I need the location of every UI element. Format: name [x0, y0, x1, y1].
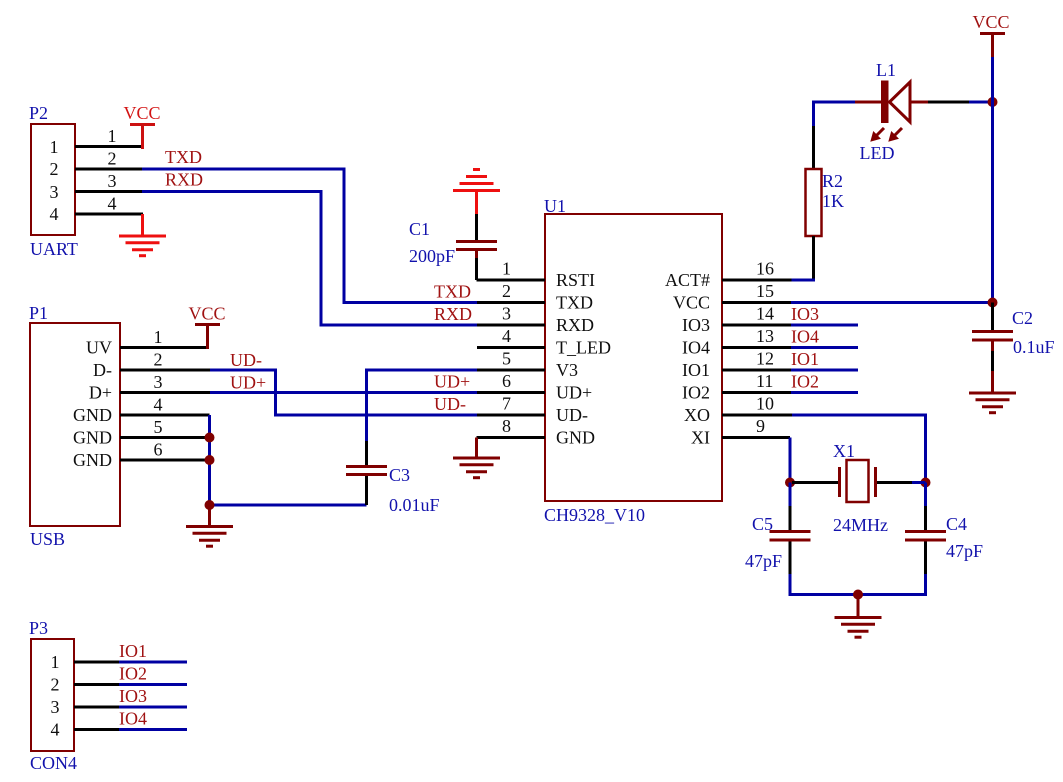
- svg-text:TXD: TXD: [165, 147, 202, 167]
- svg-text:16: 16: [756, 259, 774, 279]
- svg-text:47pF: 47pF: [946, 541, 983, 561]
- svg-text:CH9328_V10: CH9328_V10: [544, 505, 645, 525]
- svg-text:LED: LED: [860, 143, 895, 163]
- svg-text:XO: XO: [684, 405, 710, 425]
- svg-text:IO4: IO4: [791, 327, 819, 347]
- svg-text:TXD: TXD: [434, 282, 471, 302]
- svg-text:3: 3: [108, 171, 117, 191]
- wire net IO3: [791, 304, 858, 325]
- junction at P1 pin5: [205, 433, 215, 443]
- svg-text:VCC: VCC: [123, 103, 160, 123]
- svg-text:1: 1: [154, 327, 163, 347]
- U1 pin 9 XI stub: [722, 416, 790, 438]
- svg-text:R2: R2: [822, 171, 843, 191]
- svg-text:6: 6: [154, 440, 163, 460]
- U1 pin 6 UD+ stub: [477, 371, 545, 393]
- svg-text:RSTI: RSTI: [556, 270, 595, 290]
- svg-text:VCC: VCC: [972, 12, 1009, 32]
- connector P3: [29, 618, 77, 773]
- svg-text:0.1uF: 0.1uF: [1013, 337, 1055, 357]
- diode L1 LED: [855, 60, 929, 163]
- svg-text:14: 14: [756, 304, 774, 324]
- svg-text:L1: L1: [876, 60, 896, 80]
- svg-text:7: 7: [502, 394, 511, 414]
- svg-text:VCC: VCC: [673, 293, 710, 313]
- wire P1 ground bus vertical: [210, 415, 367, 505]
- wire net IO1 at P3: [119, 641, 187, 662]
- U1 pin 11 IO2 stub: [722, 371, 791, 393]
- U1 pin 8 GND stub: [477, 416, 546, 438]
- P2 pin 3 wire: [75, 171, 142, 192]
- P2 pin 1 wire: [75, 126, 143, 147]
- P3 pin 3 stub: [74, 706, 119, 709]
- svg-text:3: 3: [50, 182, 59, 202]
- svg-text:UD+: UD+: [556, 383, 592, 403]
- wire crystal bottom rail: [790, 574, 926, 595]
- svg-text:C1: C1: [409, 219, 430, 239]
- wire net RXD from P2 to U1: [142, 192, 477, 326]
- junction at XO / crystal right: [921, 478, 931, 488]
- U1 pin 12 IO1 stub: [722, 349, 791, 371]
- svg-text:24MHz: 24MHz: [833, 515, 888, 535]
- svg-text:4: 4: [154, 395, 163, 415]
- connector P2: [29, 103, 78, 259]
- P1 pin 2 wire: [120, 350, 210, 371]
- svg-text:IO2: IO2: [791, 372, 819, 392]
- svg-text:UD-: UD-: [230, 350, 262, 370]
- svg-text:13: 13: [756, 326, 774, 346]
- svg-text:XI: XI: [691, 428, 710, 448]
- svg-text:RXD: RXD: [165, 170, 203, 190]
- svg-text:12: 12: [756, 349, 774, 369]
- svg-text:GND: GND: [73, 450, 112, 470]
- svg-text:IO3: IO3: [119, 686, 147, 706]
- wire blue segment LED to junction: [969, 101, 991, 104]
- svg-text:1: 1: [502, 259, 511, 279]
- svg-text:4: 4: [108, 194, 117, 214]
- junction at crystal ground: [853, 590, 863, 600]
- wire from R2 top to LED: [814, 102, 857, 126]
- svg-text:U1: U1: [544, 196, 566, 216]
- svg-text:D+: D+: [89, 383, 112, 403]
- connector P1: [29, 303, 120, 549]
- inverted ground above C1: [453, 170, 500, 215]
- svg-text:UART: UART: [30, 239, 78, 259]
- U1 pin 4 T_LED stub: [477, 326, 545, 348]
- junction at P1 ground bus corner: [205, 500, 215, 510]
- P3 pin 4 stub: [74, 728, 119, 731]
- P1 pin 4 wire: [120, 395, 210, 416]
- junction at XI / crystal left: [785, 478, 795, 488]
- wire crystal left vertical: [789, 483, 792, 508]
- junction at P1 pin6: [205, 455, 215, 465]
- svg-text:P3: P3: [29, 618, 48, 638]
- capacitor C2: [972, 303, 1055, 372]
- svg-text:2: 2: [108, 149, 117, 169]
- U1 pin 7 UD- stub: [477, 394, 545, 416]
- ground at P2: [119, 214, 166, 256]
- U1 pin 3 RXD stub: [477, 304, 545, 326]
- wire VCC vertical rail: [991, 57, 994, 303]
- wire VCC net from U1 pin 15 to C2: [791, 301, 991, 304]
- svg-text:X1: X1: [833, 441, 855, 461]
- wire net UD+ from P1 pin3 to U1 pin6: [210, 391, 477, 394]
- svg-text:UD-: UD-: [434, 394, 466, 414]
- svg-text:1: 1: [108, 126, 117, 146]
- power VCC at P1: [188, 304, 225, 350]
- P3 pin 1 stub: [74, 661, 119, 664]
- U1 pin 13 IO4 stub: [722, 326, 791, 348]
- wire net UD- from P1 pin2 to U1 pin7: [210, 370, 477, 415]
- wire net XI from U1 pin9: [789, 438, 792, 484]
- P2 pin 2 wire: [75, 149, 142, 170]
- svg-text:3: 3: [154, 372, 163, 392]
- wire from U1 pin16 to R2: [792, 277, 814, 280]
- svg-text:IO1: IO1: [682, 360, 710, 380]
- svg-text:TXD: TXD: [556, 293, 593, 313]
- svg-text:GND: GND: [556, 428, 595, 448]
- wire net TXD from P2 to U1: [142, 169, 477, 303]
- P1 pin 5 wire: [120, 417, 210, 438]
- svg-text:C2: C2: [1012, 308, 1033, 328]
- wire crystal right vertical: [924, 483, 927, 508]
- svg-text:200pF: 200pF: [409, 246, 455, 266]
- svg-text:9: 9: [756, 416, 765, 436]
- svg-text:2: 2: [154, 350, 163, 370]
- capacitor C4: [905, 506, 983, 574]
- wire from LED to VCC rail: [928, 101, 969, 104]
- svg-text:C3: C3: [389, 465, 410, 485]
- svg-text:5: 5: [154, 417, 163, 437]
- svg-text:5: 5: [502, 349, 511, 369]
- power VCC top right: [972, 12, 1009, 58]
- wire net IO2: [791, 372, 858, 393]
- svg-text:IO1: IO1: [119, 641, 147, 661]
- P2 pin 4 wire: [75, 194, 143, 215]
- svg-text:8: 8: [502, 416, 511, 436]
- crystal X1 24MHz: [792, 441, 926, 535]
- svg-text:UD+: UD+: [434, 372, 470, 392]
- P1 pin 1 wire: [120, 327, 209, 348]
- svg-text:1: 1: [51, 652, 60, 672]
- P1 pin 6 wire: [120, 440, 210, 461]
- svg-text:VCC: VCC: [188, 304, 225, 324]
- svg-text:0.01uF: 0.01uF: [389, 495, 440, 515]
- svg-text:C4: C4: [946, 514, 967, 534]
- svg-text:IO3: IO3: [791, 304, 819, 324]
- svg-text:UV: UV: [86, 338, 112, 358]
- U1 pin 14 IO3 stub: [722, 304, 791, 326]
- svg-text:47pF: 47pF: [745, 551, 782, 571]
- ground below C2: [969, 371, 1016, 413]
- P3 pin 2 stub: [74, 683, 119, 686]
- svg-text:V3: V3: [556, 360, 578, 380]
- resistor R2: [806, 125, 845, 279]
- svg-text:1: 1: [50, 137, 59, 157]
- svg-text:IO2: IO2: [682, 383, 710, 403]
- svg-text:UD+: UD+: [230, 373, 266, 393]
- U1 pin 16 ACT# stub: [722, 259, 792, 281]
- P1 pin 3 wire: [120, 372, 210, 393]
- svg-text:P1: P1: [29, 303, 48, 323]
- U1 pin 15 VCC stub: [722, 281, 791, 303]
- svg-text:IO1: IO1: [791, 349, 819, 369]
- svg-text:IO4: IO4: [119, 709, 147, 729]
- svg-text:T_LED: T_LED: [556, 338, 611, 358]
- svg-text:4: 4: [51, 720, 60, 740]
- svg-text:10: 10: [756, 394, 774, 414]
- U1 pin 1 RSTI stub: [477, 259, 546, 281]
- svg-text:GND: GND: [73, 405, 112, 425]
- junction at LED / VCC rail: [988, 97, 998, 107]
- capacitor C5: [745, 506, 811, 574]
- svg-text:4: 4: [50, 204, 59, 224]
- svg-text:2: 2: [51, 675, 60, 695]
- svg-text:CON4: CON4: [30, 753, 77, 773]
- power VCC at P2: [123, 103, 160, 149]
- svg-text:3: 3: [51, 697, 60, 717]
- svg-text:C5: C5: [752, 514, 773, 534]
- wire net IO1: [791, 349, 858, 370]
- wire net V3 from U1 pin5 to C3: [367, 370, 478, 441]
- wire net IO2 at P3: [119, 664, 187, 685]
- wire net IO4 at P3: [119, 709, 187, 730]
- svg-text:6: 6: [502, 371, 511, 391]
- svg-text:IO2: IO2: [119, 664, 147, 684]
- svg-text:2: 2: [50, 159, 59, 179]
- svg-text:D-: D-: [93, 360, 112, 380]
- svg-text:IO4: IO4: [682, 338, 710, 358]
- svg-text:1K: 1K: [822, 191, 844, 211]
- svg-text:RXD: RXD: [434, 304, 472, 324]
- U1 pin 2 TXD stub: [477, 281, 545, 303]
- junction at VCC rail / pin15: [988, 298, 998, 308]
- svg-text:UD-: UD-: [556, 405, 588, 425]
- op-amp U1 CH9328_V10 IC body: [544, 196, 722, 525]
- svg-text:15: 15: [756, 281, 774, 301]
- svg-text:P2: P2: [29, 103, 48, 123]
- svg-text:2: 2: [502, 281, 511, 301]
- ground at U1 pin 8: [453, 438, 500, 478]
- svg-text:IO3: IO3: [682, 315, 710, 335]
- svg-text:4: 4: [502, 326, 511, 346]
- wire net IO3 at P3: [119, 686, 187, 707]
- capacitor C1: [409, 214, 497, 280]
- svg-text:ACT#: ACT#: [665, 270, 710, 290]
- svg-text:GND: GND: [73, 428, 112, 448]
- wire net IO4: [791, 327, 858, 348]
- svg-text:USB: USB: [30, 529, 65, 549]
- U1 pin 5 V3 stub: [477, 349, 545, 371]
- U1 pin 10 XO stub: [722, 394, 792, 416]
- capacitor C3: [346, 440, 440, 515]
- svg-text:RXD: RXD: [556, 315, 594, 335]
- svg-text:11: 11: [756, 371, 773, 391]
- ground below crystal: [835, 595, 882, 638]
- svg-text:3: 3: [502, 304, 511, 324]
- ground at P1: [186, 505, 233, 546]
- wire net XO from U1 pin10: [792, 415, 926, 483]
